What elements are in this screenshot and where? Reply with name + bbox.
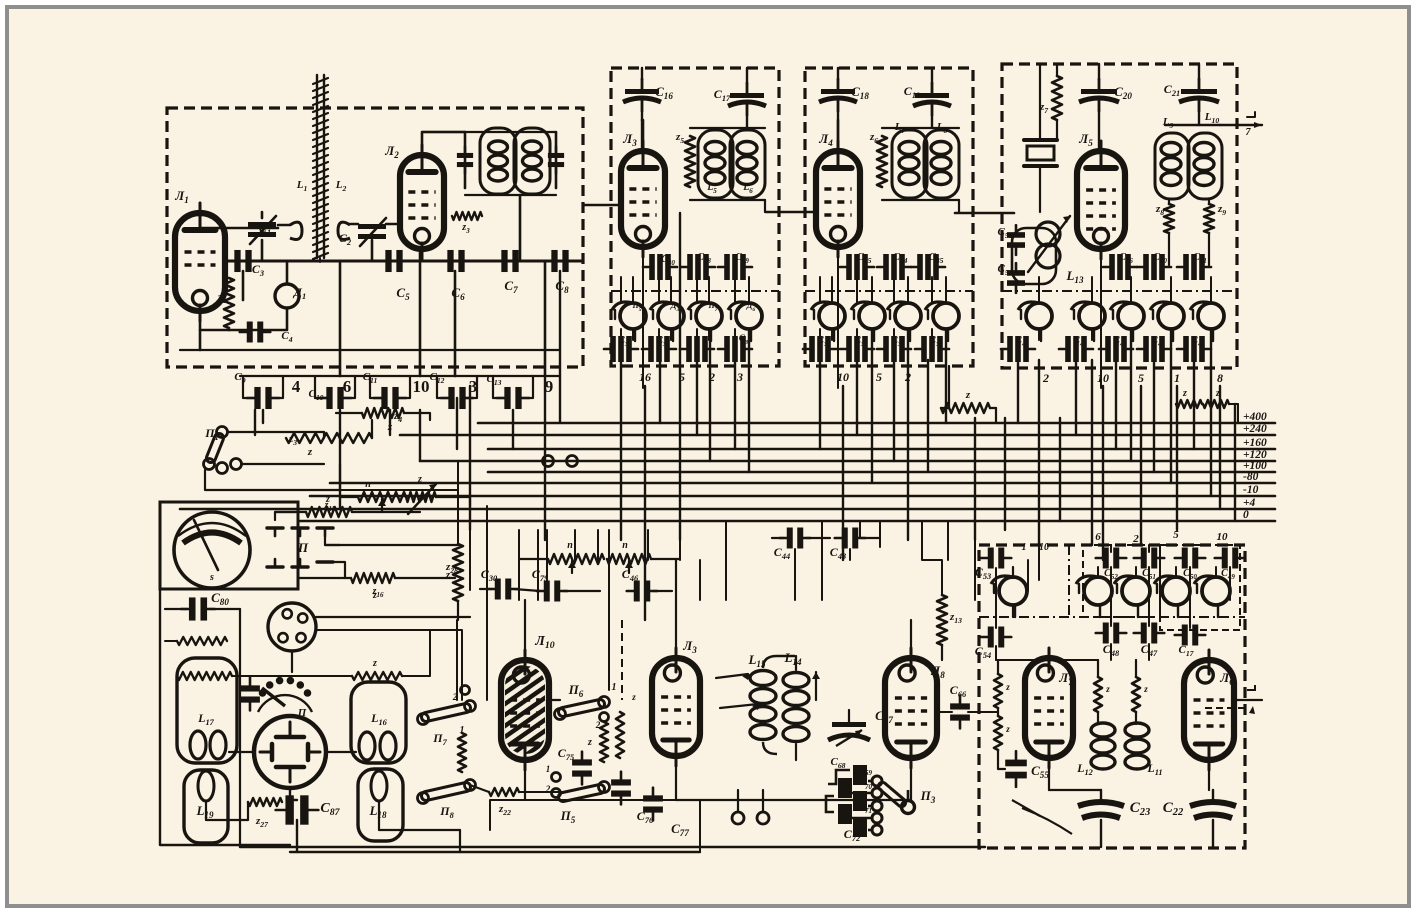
svg-text:z: z: [1143, 684, 1148, 694]
svg-text:5: 5: [1173, 529, 1179, 541]
svg-text:s: s: [209, 572, 214, 583]
svg-text:1: 1: [1022, 542, 1027, 553]
svg-text:z: z: [372, 658, 377, 669]
svg-text:2: 2: [1042, 371, 1049, 385]
svg-text:5: 5: [876, 370, 882, 384]
svg-text:+240: +240: [1243, 423, 1267, 435]
svg-text:+4: +4: [1243, 497, 1256, 509]
svg-text:П: П: [297, 540, 309, 555]
svg-text:4: 4: [292, 377, 301, 396]
svg-text:10: 10: [413, 377, 430, 396]
svg-text:n: n: [365, 479, 371, 490]
svg-text:1: 1: [546, 764, 551, 774]
svg-text:1: 1: [612, 682, 617, 693]
svg-text:z: z: [417, 474, 422, 485]
svg-text:6: 6: [1095, 531, 1101, 543]
svg-text:n: n: [622, 540, 628, 551]
svg-text:-10: -10: [1243, 484, 1259, 496]
svg-text:n: n: [567, 540, 573, 551]
svg-text:z: z: [631, 692, 636, 702]
svg-text:z: z: [1005, 682, 1010, 692]
svg-text:10: 10: [1217, 531, 1229, 543]
svg-text:1: 1: [1174, 371, 1180, 385]
svg-text:+400: +400: [1243, 411, 1267, 423]
svg-text:10: 10: [1039, 542, 1049, 553]
svg-text:2: 2: [1132, 533, 1139, 545]
svg-text:2: 2: [545, 784, 551, 794]
svg-text:z: z: [307, 446, 313, 458]
svg-text:16: 16: [639, 370, 651, 384]
svg-text:10: 10: [1097, 371, 1109, 385]
svg-text:z: z: [387, 421, 393, 433]
svg-text:z: z: [1182, 388, 1187, 399]
svg-text:8: 8: [1217, 371, 1223, 385]
svg-text:0: 0: [1243, 509, 1249, 521]
svg-text:6: 6: [343, 377, 352, 396]
svg-text:3: 3: [736, 370, 743, 384]
svg-text:-80: -80: [1243, 471, 1259, 483]
svg-text:z: z: [1105, 684, 1110, 694]
svg-text:z: z: [965, 389, 971, 401]
svg-text:z: z: [1005, 724, 1010, 734]
svg-text:+160: +160: [1243, 437, 1267, 449]
svg-text:z: z: [587, 737, 592, 748]
svg-text:5: 5: [1138, 371, 1144, 385]
